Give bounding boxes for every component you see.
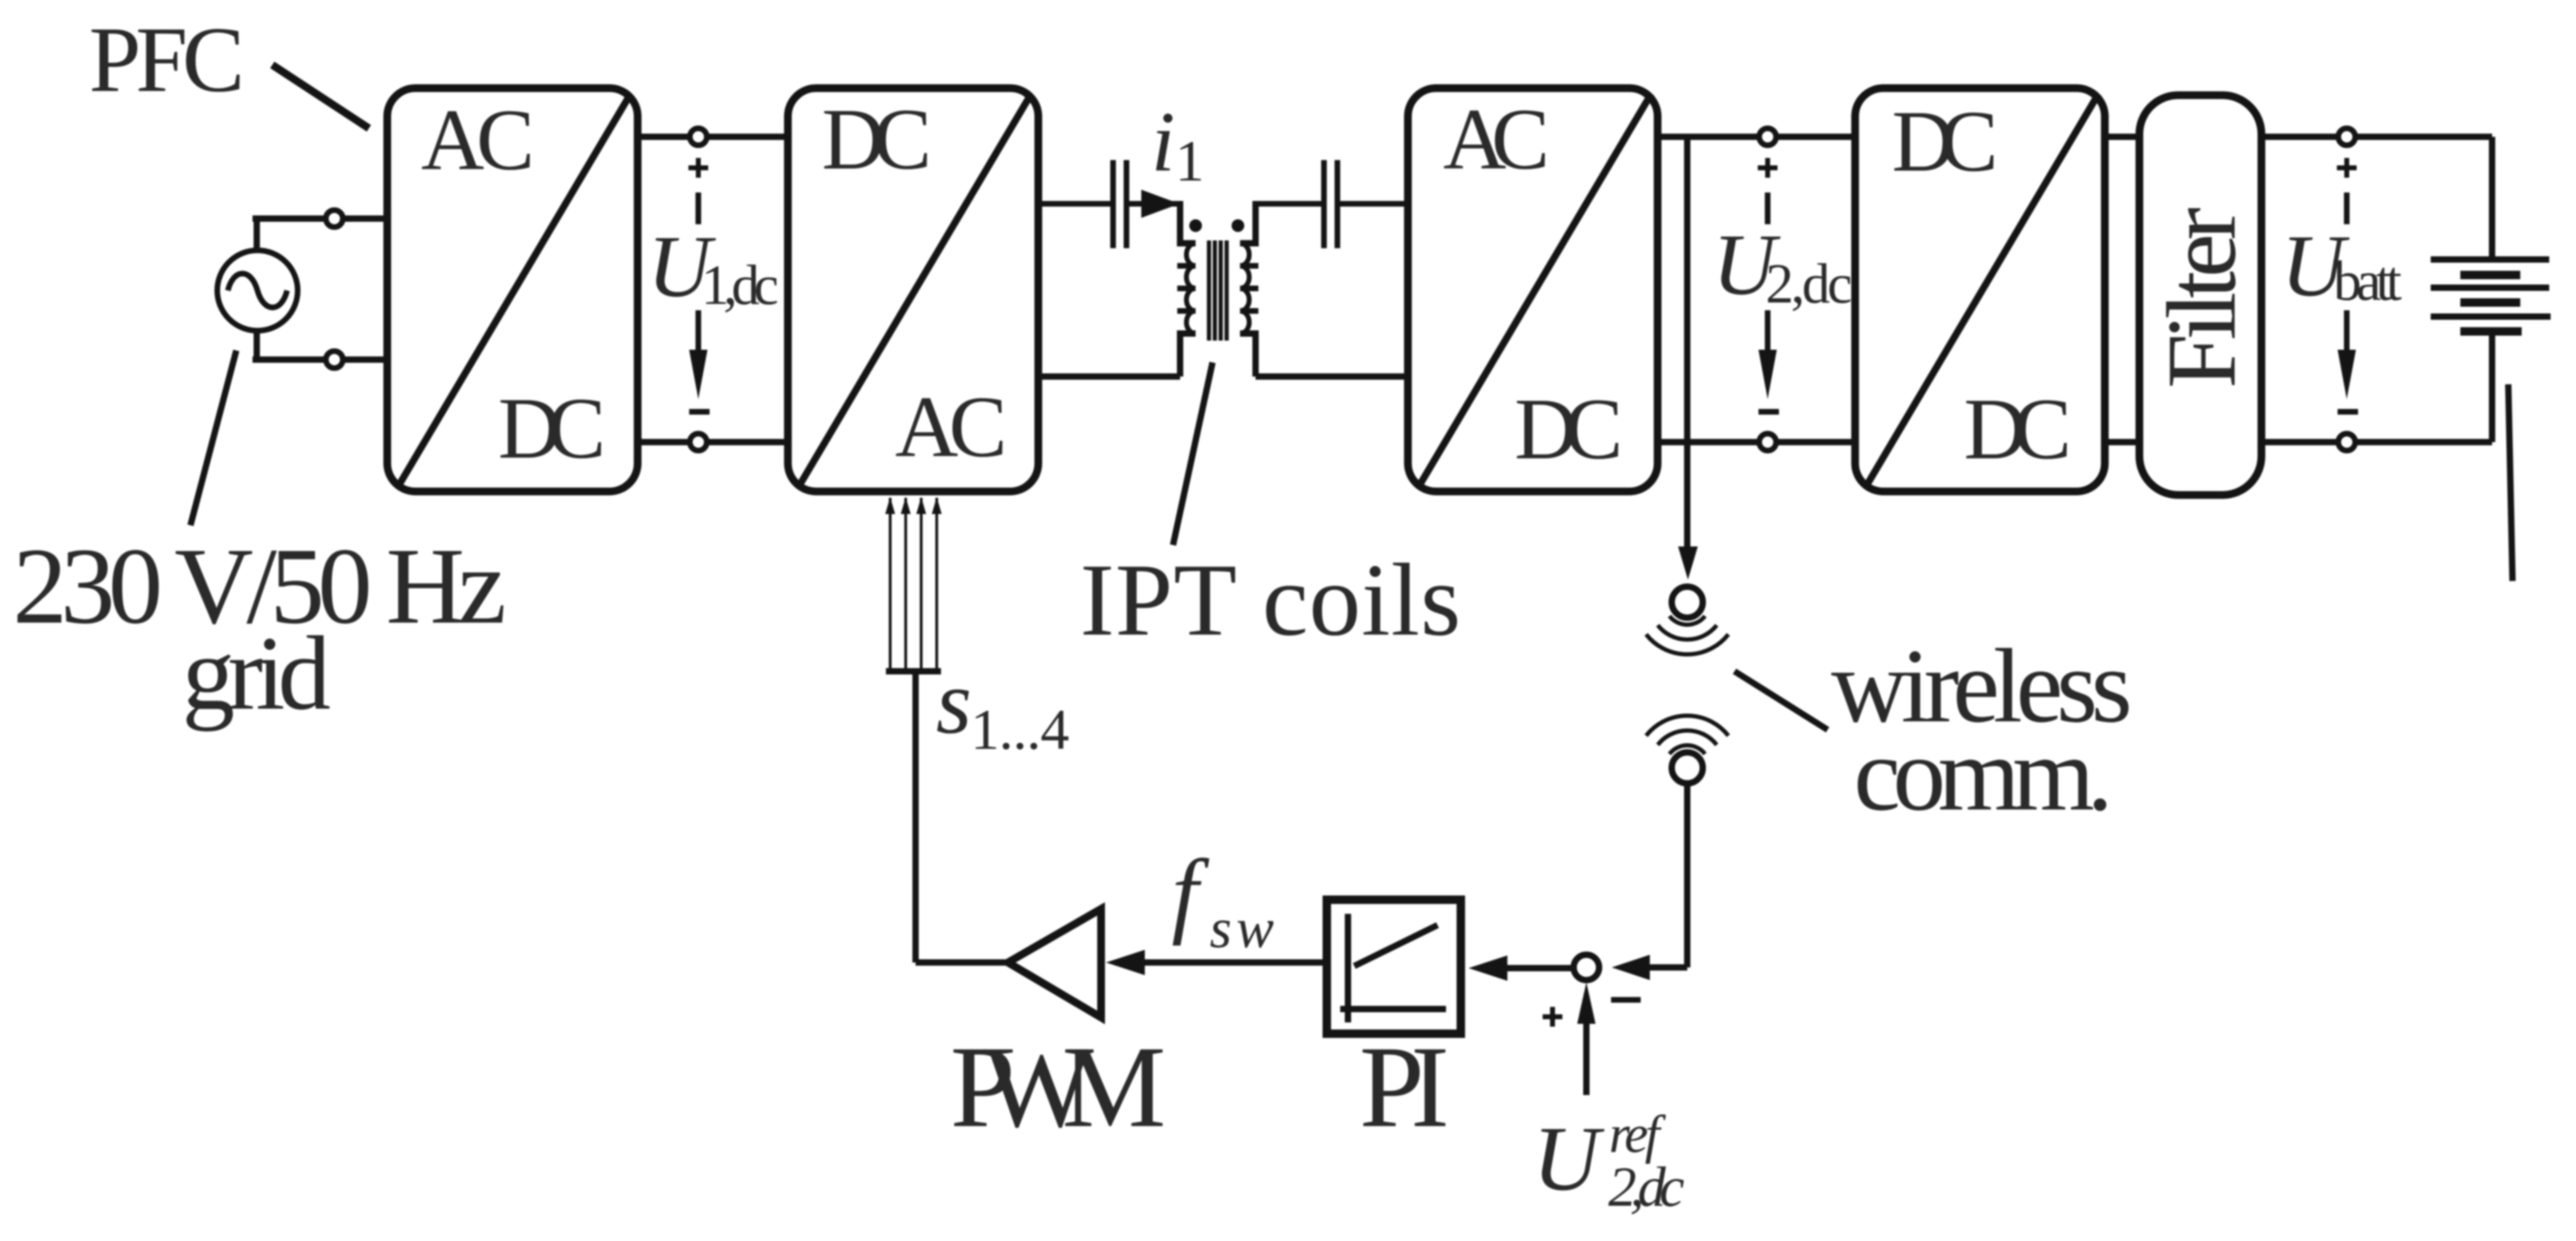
- svg-text:DC: DC: [1964, 381, 2072, 477]
- svg-text:DC: DC: [1892, 93, 1998, 190]
- svg-text:U: U: [1533, 1108, 1605, 1210]
- svg-text:2,dc: 2,dc: [1608, 1156, 1684, 1218]
- svg-text:1,dc: 1,dc: [701, 255, 779, 317]
- svg-text:AC: AC: [421, 92, 535, 188]
- svg-text:2,dc: 2,dc: [1766, 253, 1852, 315]
- svg-text:grid: grid: [182, 615, 331, 732]
- svg-text:1: 1: [1175, 128, 1205, 193]
- svg-text:comm.: comm.: [1854, 716, 2113, 833]
- svg-text:sw: sw: [1210, 898, 1274, 960]
- svg-text:batt: batt: [2333, 250, 2402, 312]
- svg-text:PFC: PFC: [89, 7, 245, 111]
- svg-text:i: i: [1151, 94, 1175, 190]
- svg-text:PWM: PWM: [950, 1022, 1166, 1151]
- svg-text:IPT coils: IPT coils: [1080, 542, 1461, 657]
- svg-text:DC: DC: [498, 380, 606, 477]
- svg-text:DC: DC: [822, 91, 932, 188]
- svg-text:DC: DC: [1514, 381, 1623, 477]
- svg-text:AC: AC: [1443, 91, 1550, 188]
- svg-text:1...4: 1...4: [971, 697, 1069, 762]
- svg-text:s: s: [936, 652, 972, 753]
- svg-text:Filter: Filter: [2147, 207, 2256, 389]
- svg-text:ref: ref: [1609, 1105, 1666, 1164]
- svg-text:AC: AC: [895, 379, 1007, 475]
- svg-text:PI: PI: [1359, 1022, 1450, 1151]
